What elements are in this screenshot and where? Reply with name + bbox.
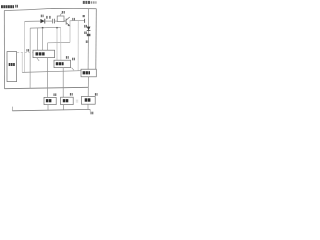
wire input y21 [25,20,41,22]
label above box C [95,93,98,96]
leader below B1 [37,58,40,61]
title text top-left [1,5,14,8]
box B [61,97,74,104]
box C [81,97,95,105]
wire y72 [22,71,81,73]
wire right inner [87,9,90,70]
label right of B2 [72,58,75,61]
faint marks right of box B [76,99,78,102]
box B2 [54,60,71,67]
wire x22 vertical [21,53,23,72]
label y41 right [86,40,89,43]
box B3 text [83,71,90,74]
label 29 [49,16,50,19]
junction dot [56,27,58,29]
wire right border [95,9,98,70]
leader below B2 [72,68,74,71]
wire collector right [70,19,85,22]
box C text [85,98,91,101]
wire y28 bus [30,26,60,29]
wire x70 vertical [69,21,71,43]
wire x30 vertical [29,28,31,88]
label right top [83,15,85,17]
wire after D1 [45,20,52,22]
tall box TB [7,52,17,82]
wire left border [3,11,5,89]
label 27 above D1 [41,15,44,18]
label bottom right [91,112,94,115]
box B3 [81,69,96,77]
wire box B bottom [63,105,65,110]
bar component on right wire [87,34,91,36]
box U1 [57,16,64,22]
header text top-right [83,1,97,4]
wire x88 below B3 [87,77,89,97]
wire x61 vertical [60,27,62,60]
bottom ground bus [12,109,90,110]
box B1 text [36,52,45,55]
wire box C bottom [87,104,89,109]
label 28 [46,16,47,19]
label below D2 [84,32,87,35]
label 10 [15,5,18,8]
label left of B1 [26,49,29,52]
leader above U1 [60,13,62,16]
wire x78 vertical [77,21,79,71]
box B text [63,99,69,102]
wire x63 lower [62,68,64,98]
wire x47.5 lower [47,58,49,98]
diode D1 [40,19,44,24]
wire x24 vertical [24,21,26,72]
label left of D2 [84,25,87,28]
capacitor bars [52,19,54,24]
label above box B [70,93,73,96]
junction dot [42,27,44,29]
diode D2 on right wire [87,27,91,31]
wire top bus [4,8,96,10]
transistor Q1 [64,17,70,26]
box A text [46,99,52,102]
wire y42.5 [48,41,70,43]
bus left hook [11,107,13,111]
wire x42.5 vertical [42,28,44,50]
label 42 above U1 [62,11,65,14]
wire x57 vertical [56,28,58,61]
label above B2 [66,56,69,59]
box B2 text [56,62,64,65]
bus right tick [89,109,91,111]
wire bottom bus [5,87,89,88]
wire to box U1 [55,20,58,22]
label near emitter [72,18,75,20]
label above box A [54,93,57,96]
wire box A bottom [47,105,49,111]
dashed wire y52.5 [17,52,33,54]
wire x37.5 vertical [37,28,39,50]
tall box text [9,63,15,66]
wire x47.5 upper [47,43,49,50]
box A [44,97,56,104]
box B1 [33,50,55,57]
terminal bar [84,19,86,23]
